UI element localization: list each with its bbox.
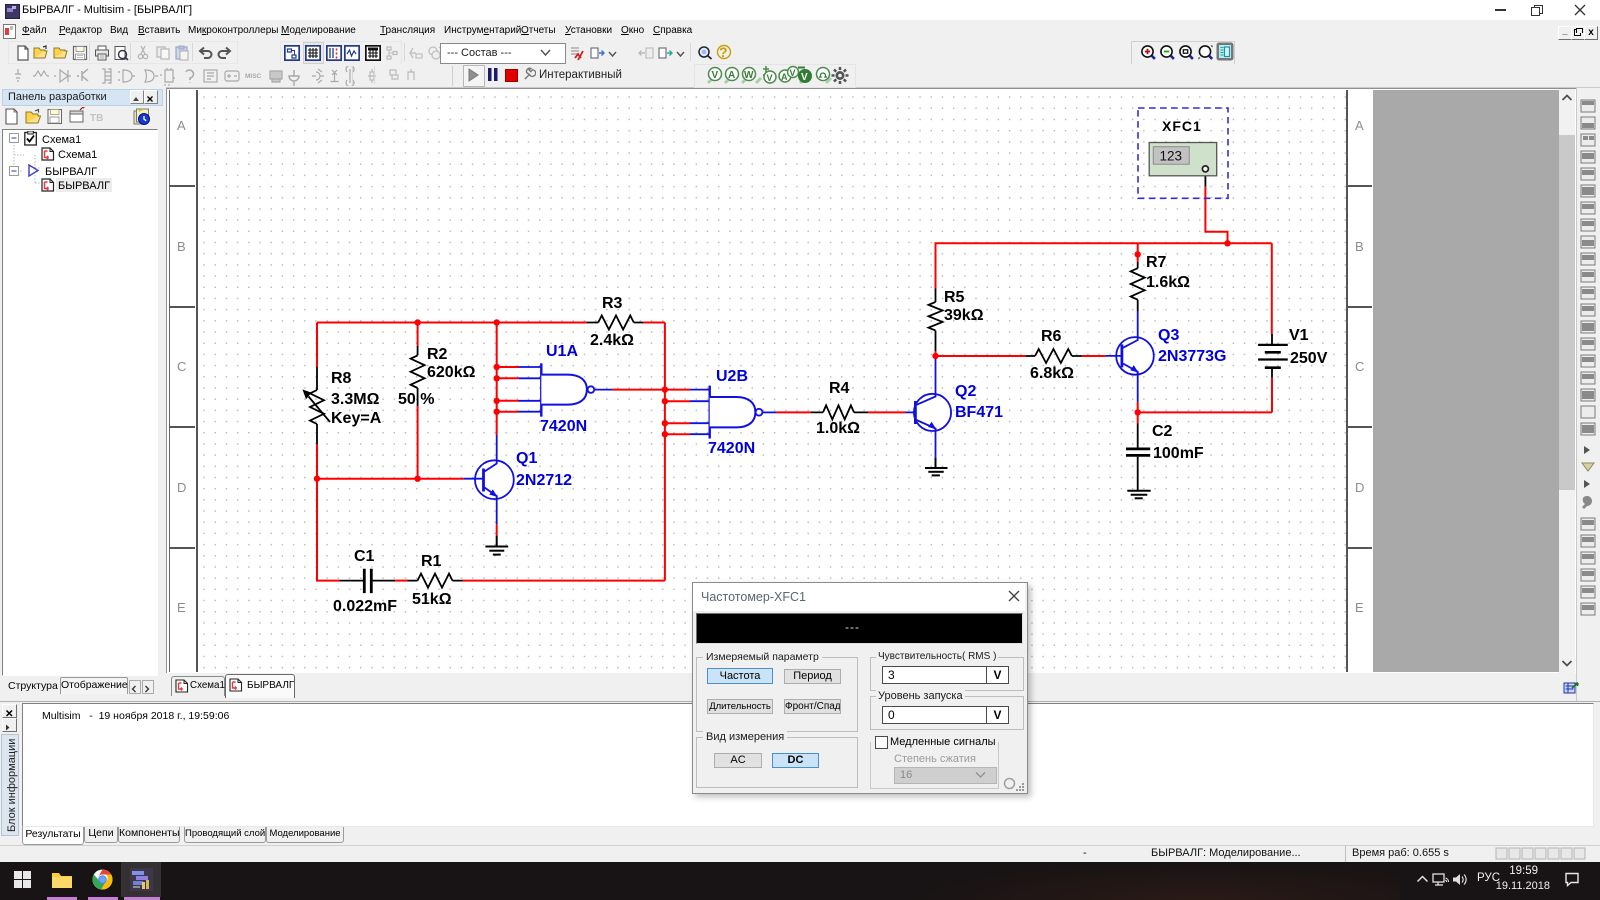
probe icons — [694, 64, 856, 88]
component toolbar icons (gray) — [10, 66, 450, 86]
wire left vertical upper — [316, 323, 318, 368]
zoom toolbar — [1131, 41, 1235, 65]
start — [14, 871, 31, 888]
svg-text:Q2: Q2 — [955, 383, 976, 400]
save — [72, 45, 88, 61]
svg-text:Схема1: Схема1 — [42, 134, 81, 146]
svg-text:XFC1: XFC1 — [1162, 118, 1202, 134]
svg-text:50 %: 50 % — [398, 391, 434, 408]
svg-text:V: V — [801, 72, 808, 83]
resistor R6 — [1026, 328, 1082, 382]
ground Q1 — [485, 536, 508, 555]
panel toolbar — [4, 107, 156, 127]
wire V1 branch — [1138, 243, 1272, 412]
wire R2 top lead — [417, 323, 419, 346]
cut copy paste (disabled) — [136, 45, 152, 61]
wire R7 stub — [1137, 243, 1139, 262]
svg-text:2N3773G: 2N3773G — [1158, 348, 1227, 365]
gray out-of-sheet area — [1373, 90, 1559, 672]
junction U2B pin4 — [662, 431, 668, 437]
gate U2B 7420N — [690, 368, 776, 457]
sheet dotted background — [196, 90, 1346, 672]
display — [696, 613, 1023, 644]
group Вид измерения — [696, 737, 858, 788]
resistor R1 — [408, 553, 463, 608]
junction R8 bottom node — [314, 476, 320, 482]
wire bottom mid — [395, 580, 408, 582]
undo redo — [197, 45, 213, 61]
wire U2B output red — [776, 411, 811, 413]
capacitor C2 — [1126, 423, 1204, 491]
wire U1A column — [496, 323, 498, 436]
transistor Q1 — [463, 435, 572, 525]
junction R2 top — [414, 319, 420, 325]
svg-text:BF471: BF471 — [955, 404, 1003, 421]
junction U1A pin3 — [494, 398, 500, 404]
junction U2B pin1 — [662, 386, 668, 392]
bottom tabs — [22, 827, 84, 845]
junction U1A pin2 — [494, 375, 500, 381]
junction R7 top — [1135, 251, 1141, 257]
svg-text:TB: TB — [90, 113, 103, 124]
left ruler — [169, 90, 198, 672]
wire R5 top corner — [936, 243, 1272, 288]
svg-text:1.0kΩ: 1.0kΩ — [816, 420, 860, 437]
wire R5 bottom — [935, 351, 937, 356]
wire C2 stub — [1137, 412, 1139, 423]
svg-text:100mF: 100mF — [1153, 445, 1204, 462]
ground Q2 — [925, 458, 948, 475]
junction U2B pin3 — [662, 420, 668, 426]
svg-text:620kΩ: 620kΩ — [427, 364, 476, 381]
wire Q1 base — [317, 478, 463, 480]
junction U1A column top — [494, 319, 500, 325]
preview — [113, 45, 129, 61]
wire Q3 emitter red — [1137, 402, 1139, 413]
resistor R5 — [929, 289, 984, 352]
combobox — [440, 43, 566, 64]
ground C2 — [1127, 491, 1150, 499]
junction R2 bottom — [414, 476, 420, 482]
group Медленные сигналы — [870, 742, 999, 789]
folder — [50, 868, 74, 892]
svg-text:V: V — [790, 68, 796, 78]
svg-text:Схема1: Схема1 — [58, 149, 97, 161]
svg-text:R8: R8 — [331, 370, 352, 387]
group Уровень запуска — [870, 696, 1024, 730]
resistor R7 — [1131, 254, 1190, 311]
junction XFC1 tap — [1224, 240, 1230, 246]
svg-text:123: 123 — [1160, 149, 1183, 164]
wire XFC1 black lead — [1204, 172, 1206, 187]
wire bottom right — [463, 580, 665, 582]
wire left vertical lower — [316, 444, 318, 582]
simulation controls — [463, 65, 485, 87]
wire R4 to Q2 — [868, 411, 906, 413]
svg-text:C2: C2 — [1152, 423, 1173, 440]
svg-text:R2: R2 — [427, 346, 448, 363]
new doc — [15, 45, 31, 61]
tree — [2, 129, 158, 676]
svg-text:R4: R4 — [829, 380, 850, 397]
svg-text:R6: R6 — [1041, 328, 1062, 345]
wire Q1 emitter red — [496, 525, 498, 536]
svg-text:7420N: 7420N — [708, 440, 755, 457]
resistor R3 — [587, 295, 643, 349]
svg-text:R1: R1 — [421, 553, 442, 570]
transistor Q2 — [906, 356, 1004, 458]
svg-text:Q3: Q3 — [1158, 327, 1179, 344]
svg-text:2.4kΩ: 2.4kΩ — [590, 332, 634, 349]
svg-text:R5: R5 — [944, 289, 965, 306]
svg-text:БЫРВАЛГ: БЫРВАЛГ — [58, 180, 110, 192]
wire R2 bottom lead — [417, 406, 419, 479]
svg-text:V: V — [712, 70, 719, 81]
svg-text:W: W — [744, 70, 754, 81]
junction R5-R6-Q2 node — [932, 353, 938, 359]
print — [94, 45, 110, 61]
svg-text:U2B: U2B — [716, 368, 748, 385]
svg-text:V: V — [767, 73, 773, 83]
right ruler — [1346, 90, 1375, 672]
svg-text:БЫРВАЛГ: БЫРВАЛГ — [45, 166, 97, 178]
wire U1A input pins red — [497, 367, 519, 412]
design toggle icons — [280, 41, 402, 65]
multisim taskbar tile — [121, 862, 161, 897]
resistor R2 — [398, 346, 476, 408]
wire top-left loop top — [317, 322, 587, 324]
junction U1A pin4 — [494, 409, 500, 415]
svg-text:A: A — [728, 70, 735, 81]
svg-text:39kΩ: 39kΩ — [944, 307, 984, 324]
svg-text:7420N: 7420N — [540, 418, 587, 435]
svg-text:Q1: Q1 — [516, 450, 537, 467]
resistor R8 potentiometer — [303, 367, 382, 444]
svg-text:6.8kΩ: 6.8kΩ — [1030, 365, 1074, 382]
svg-text:R3: R3 — [602, 295, 623, 312]
left panel bottom tabs — [0, 676, 160, 697]
wire XFC1 to top wire — [1205, 187, 1227, 244]
svg-text:V1: V1 — [1289, 327, 1309, 344]
group Чувствительность — [870, 657, 1024, 691]
group Измеряемый параметр — [696, 657, 858, 732]
wire U1A output red — [612, 389, 665, 391]
svg-text:U1A: U1A — [546, 343, 578, 360]
chrome — [92, 869, 113, 890]
svg-text:1.6kΩ: 1.6kΩ — [1146, 274, 1190, 291]
svg-text:51kΩ: 51kΩ — [412, 591, 452, 608]
instrument XFC1 — [1138, 108, 1228, 198]
svg-text:R7: R7 — [1146, 254, 1167, 271]
wire right vertical branch — [664, 323, 666, 581]
svg-text:C1: C1 — [354, 548, 375, 565]
wire top right segment to corner — [643, 322, 665, 324]
battery V1 — [1258, 327, 1328, 378]
svg-text:0.022mF: 0.022mF — [333, 598, 397, 615]
open2 — [53, 45, 69, 61]
junction U2B pin2 — [662, 398, 668, 404]
wire bottom left — [316, 580, 339, 582]
MDI window buttons — [1558, 26, 1572, 40]
junction Q3 emitter node — [1135, 409, 1141, 415]
svg-text:3.3MΩ: 3.3MΩ — [331, 391, 380, 408]
svg-text:MISC: MISC — [245, 73, 262, 80]
svg-text:2N2712: 2N2712 — [516, 472, 572, 489]
capacitor C1 — [333, 548, 397, 615]
gate U1A 7420N — [519, 343, 613, 435]
open1 — [33, 45, 49, 61]
wire R6 left — [936, 355, 1026, 357]
tray — [1416, 874, 1429, 885]
vertical scrollbar — [1559, 89, 1575, 673]
resistor R4 — [811, 380, 868, 437]
transistor Q3 — [1106, 311, 1227, 402]
wire U2B input pins red — [665, 390, 690, 435]
icons right of combo — [569, 45, 585, 61]
junction U1A pin1 — [494, 364, 500, 370]
svg-text:Key=A: Key=A — [331, 410, 382, 427]
svg-text:250V: 250V — [1290, 350, 1328, 367]
wire R6 right — [1082, 355, 1106, 357]
DB icon below canvas right — [1563, 680, 1580, 696]
